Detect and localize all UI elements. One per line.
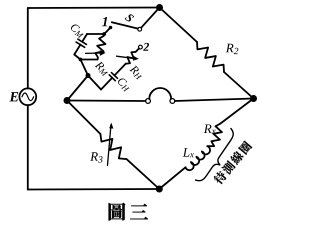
label Rx	[204, 124, 216, 133]
label coil-under-test char 線	[229, 150, 245, 166]
wire J to bend	[88, 76, 101, 90]
wire C2 to J	[81, 60, 89, 76]
wire contact1 to parallel block	[104, 28, 110, 35]
wire V1 to node C2	[74, 55, 80, 60]
switch pivot	[138, 27, 142, 31]
node W dot	[64, 97, 71, 104]
wire block top edge	[87, 33, 104, 35]
wire Rx to Lx	[207, 145, 214, 147]
wire N to switch pivot	[141, 8, 159, 28]
RH wiper arrow	[117, 56, 136, 59]
detector phone left circle	[146, 99, 151, 104]
node N dot	[156, 4, 163, 11]
wire RH to contact2	[136, 49, 139, 52]
source E circle	[19, 88, 36, 105]
wire block bottom edge	[81, 59, 98, 61]
RM wiper arrow	[86, 52, 103, 54]
label CH	[116, 77, 132, 93]
label E	[9, 92, 18, 101]
source E sine	[22, 93, 34, 101]
R3 wiper arrow	[108, 125, 112, 166]
label Lx	[183, 148, 194, 157]
node C2 dot	[79, 58, 83, 62]
detector phone right circle	[170, 99, 175, 104]
label 1	[102, 17, 107, 26]
label RM	[94, 60, 110, 76]
label coil-under-test char 圈	[238, 140, 253, 155]
contact 1 dot	[109, 26, 113, 30]
wire detector left	[67, 100, 146, 103]
resistor R2	[197, 42, 224, 72]
node E dot	[250, 95, 257, 102]
wire left rail lower	[27, 105, 29, 189]
resistor RH	[126, 52, 136, 64]
label 2	[143, 43, 149, 51]
contact 2 circle	[139, 45, 143, 49]
detector phone arc	[149, 88, 171, 99]
label S switch	[125, 13, 135, 23]
label coil-under-test char 待	[212, 170, 228, 186]
switch blade S	[112, 22, 138, 28]
brace for coil under test	[196, 129, 241, 187]
node S dot	[156, 186, 163, 193]
caption figure-3 char Tu	[109, 203, 126, 221]
wire J to W	[67, 76, 88, 101]
label coil-under-test char 測	[221, 160, 236, 175]
label R2	[226, 44, 239, 54]
node A dot	[102, 32, 106, 36]
wire R3 to S node	[127, 159, 160, 189]
capacitor CM	[82, 34, 87, 42]
capacitor CH	[101, 78, 112, 90]
wire top rail	[28, 7, 160, 10]
wire left rail upper	[27, 8, 29, 88]
wire E node to Rx	[220, 99, 253, 124]
resistor Rx	[211, 124, 222, 147]
wire detector right	[175, 99, 254, 102]
caption figure-3 char San	[130, 204, 148, 219]
wire N to R2	[160, 8, 198, 43]
wire W to R3	[67, 101, 100, 135]
node J dot	[86, 73, 91, 78]
label RH	[129, 65, 145, 81]
wire R2 to E node	[224, 72, 254, 99]
wire Lx to S node	[159, 167, 185, 189]
label CM	[69, 23, 86, 39]
label R3	[90, 152, 102, 162]
resistor R3	[100, 134, 126, 159]
resistor RM	[95, 34, 105, 60]
inductor Lx coil	[186, 146, 211, 170]
wire bottom rail	[28, 188, 160, 191]
